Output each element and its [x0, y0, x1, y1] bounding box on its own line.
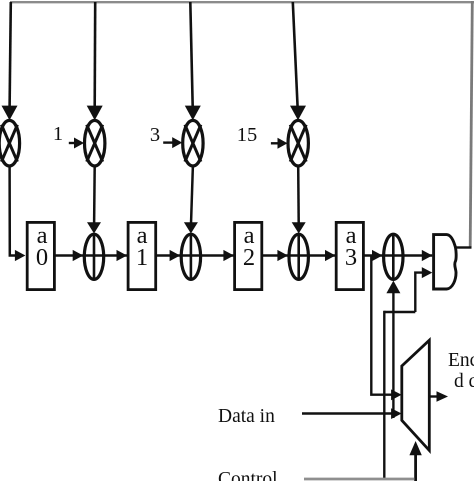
node feedback right wire: [470, 1, 472, 247]
label Data in: [218, 407, 275, 427]
wire D second input: [415, 267, 432, 312]
wire arrow coefficient 1 into G1: [69, 138, 84, 149]
wire junction horizontal below X4: [384, 311, 415, 313]
wire arrow coefficient 3 into G2: [163, 137, 182, 148]
register a3 box: [336, 222, 363, 289]
label Control: [218, 470, 278, 481]
register a0 box: [27, 222, 54, 289]
register a2 box: [235, 222, 262, 289]
multiplier G0 ellipse: [0, 120, 20, 166]
wire column3 from top: [185, 2, 201, 120]
wire a2 to a3 through X3: [262, 250, 335, 261]
wire Control line: [304, 478, 414, 481]
wire G0 output to a0: [10, 166, 26, 262]
wire G1 to adder X1: [87, 166, 101, 281]
label Encoded data line2: [454, 372, 474, 392]
wire mux output: [429, 391, 448, 402]
wire a1 to a2 through X2: [156, 250, 234, 261]
label coefficient 1: [48, 124, 68, 145]
register a1 box: [128, 222, 156, 289]
register a3 label: [337, 224, 365, 249]
wire column4 from top: [290, 2, 306, 120]
combiner D shape: [434, 235, 457, 289]
adder X2 ellipse: [181, 234, 200, 279]
wire mux select from Control: [409, 441, 421, 481]
wire into X4 bottom: [386, 281, 400, 418]
multiplier G3 ellipse: [288, 120, 308, 166]
multiplier G1 ellipse: [85, 120, 105, 166]
label coefficient 3: [145, 125, 165, 146]
wire G3 to adder X3: [292, 166, 306, 281]
wire a0 to a1 through X1: [56, 250, 128, 261]
wire D output to right edge: [456, 246, 472, 248]
multiplier G2 ellipse: [183, 120, 203, 166]
adder X4 ellipse: [384, 234, 403, 280]
multiplexer MUX trapezoid: [402, 340, 430, 450]
label Encoded data line1: [448, 351, 474, 371]
adder X1 ellipse: [84, 234, 103, 279]
wire Data in line: [302, 408, 402, 419]
wire column1 from top: [2, 2, 18, 120]
wire vertical to control line: [383, 311, 385, 479]
register a0 label: [28, 224, 56, 249]
wire arrow coefficient 15 into G3: [271, 138, 288, 149]
wire column2 from top: [87, 2, 103, 120]
wire tap a3 output down to mux input1: [371, 256, 401, 401]
label coefficient 15: [232, 125, 262, 146]
wire G2 to adder X2: [184, 166, 198, 281]
node feedback top wire: [10, 1, 474, 3]
register a2 label: [235, 224, 263, 249]
wire a3 to D through X4: [364, 250, 432, 261]
register a1 label: [128, 224, 156, 249]
adder X3 ellipse: [289, 234, 308, 279]
